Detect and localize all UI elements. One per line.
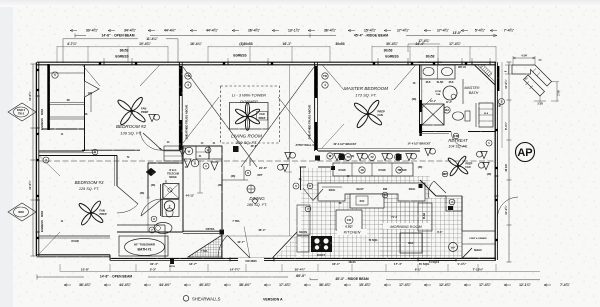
closet shelf top [50, 72, 84, 74]
bath2 cabinet crossed box [163, 184, 179, 199]
bath1 walls [117, 224, 165, 226]
vent symbols living-dining band [285, 152, 291, 159]
pantry door wedge [303, 188, 313, 201]
living room dormer dashed box [221, 86, 280, 143]
corner detail top dimension [513, 57, 535, 59]
master toilet [453, 112, 464, 120]
kitchen entry tile wedge [275, 234, 297, 258]
dining window label [238, 258, 264, 263]
bedroom2 closet partition wall [84, 65, 86, 81]
pantry walls [300, 166, 307, 168]
retreat ceiling fan [457, 165, 468, 175]
right wall black post ticks lower [495, 130, 498, 240]
vault apex drop line [249, 158, 251, 166]
kitchen center island [336, 210, 362, 230]
counter strip left of range [297, 205, 310, 235]
black diamond shear marker [146, 168, 156, 176]
bottom arrow dimension row [64, 284, 71, 286]
circled marker bath1 [149, 227, 155, 233]
tiled floor morning room [380, 198, 462, 258]
vent triangle laundry right [211, 162, 218, 170]
toilet room wall [462, 79, 464, 104]
retreat dividing wall [420, 131, 497, 133]
pantry black posts [315, 156, 320, 161]
AP approval stamp circle [516, 143, 535, 162]
corner detail lower strip [524, 75, 545, 96]
shearwalls legend [183, 296, 189, 302]
bottom ridge beam dimension [310, 279, 540, 281]
master bedroom ceiling fan [367, 113, 383, 127]
top wall windows [104, 61, 132, 63]
vent symbols retreat [425, 148, 431, 155]
dining vertical dim line [289, 65, 291, 236]
morning room circle marker [449, 243, 458, 252]
bottom exterior wall main section [110, 257, 496, 259]
bath2 room outline [162, 200, 179, 217]
hall arch lines [222, 179, 248, 181]
bedroom2 ceiling fan [131, 110, 147, 124]
shear post on living/master wall [315, 66, 318, 98]
master closet shelves crossed box [422, 104, 444, 125]
left exterior wall [35, 62, 37, 256]
kitchen top wall posts [339, 154, 345, 160]
retreat vestibule [446, 196, 462, 211]
marriage wall dash line [37, 160, 496, 162]
bottom wall windows dining [230, 257, 274, 259]
circled marker right wall [486, 140, 492, 146]
circled marker dining right [293, 183, 299, 189]
master bath sink counter [420, 65, 455, 79]
corner detail left dimension [508, 65, 510, 74]
top dimension row 1 with arrows and labels [70, 29, 77, 31]
black post retreat corner [419, 184, 423, 188]
open beam / ridge beam dimension line [75, 35, 497, 37]
bed2 window corner arcs [82, 65, 100, 86]
circled marker retreat wall [453, 133, 459, 139]
entry door wedge [218, 235, 227, 258]
retreat door gap [451, 130, 468, 134]
bottom open beam dimension [37, 276, 310, 278]
right vertical dimension line [508, 62, 510, 262]
utility closet shelves [164, 146, 182, 161]
bedroom3 closet lines [39, 235, 110, 237]
dining left wall [221, 180, 223, 258]
master bath inner wall [475, 103, 477, 127]
bath1 tub oval label [125, 239, 165, 256]
top exterior wall [37, 61, 496, 63]
black shear post laundry wall [233, 146, 239, 152]
tiled floor kitchen [330, 176, 430, 258]
dining ceiling diamond marker [252, 198, 258, 204]
bedroom3 door leaf and swing [117, 186, 138, 204]
right exterior wall [494, 62, 496, 260]
window seat cabinets retreat [462, 231, 495, 258]
kitchen wall to master bedroom [318, 150, 420, 152]
hall wall black post [220, 230, 225, 235]
corner detail bottom dimension [534, 100, 546, 102]
laundry appliance boxes [196, 146, 209, 159]
wall between bedroom2 and living room [178, 62, 180, 151]
master shower circle [443, 86, 457, 100]
window marker diamond bedroom2 [8, 103, 36, 121]
bed2 interior vents [149, 114, 155, 121]
bottom 60 foot dimension [288, 273, 314, 278]
corner detail bar with diagonal arm [512, 65, 552, 86]
left wall black post ticks [36, 70, 39, 238]
closet rod bedroom2 [50, 102, 84, 104]
lower strip inner ticks [526, 82, 530, 86]
left scanner margin strip [0, 0, 13, 307]
circled markers living wall left [185, 73, 191, 79]
corner detail arm inner ticks [533, 69, 537, 73]
kitchen label [337, 229, 367, 235]
master bath door [420, 98, 432, 110]
left wall window bedroom2 [35, 96, 37, 128]
master suite dividing wall [419, 65, 421, 133]
hall bottom wall [183, 230, 222, 232]
extra circled markers scatter [151, 216, 157, 222]
bedroom3 top wall [39, 155, 96, 157]
morning room label [383, 223, 430, 229]
bedroom2 door leaf and swing [143, 133, 162, 150]
laundry alcove walls [183, 145, 222, 147]
circled marker bed3 [43, 157, 49, 163]
living room ceiling fan [247, 115, 260, 125]
window marker diamond bedroom3 [8, 203, 36, 221]
hall dim line [199, 160, 201, 193]
kitchen range black [311, 236, 332, 252]
bath1 tub outline [119, 236, 168, 256]
bedroom3 right wall [116, 156, 118, 187]
top dimension row 3 [63, 38, 178, 40]
kitchen entry diagonal wall [272, 232, 297, 258]
bath1 toilet and sink [154, 223, 172, 234]
fridge box [400, 233, 422, 253]
circled marker master closet [444, 107, 450, 113]
retreat/morning divider diagonal wall [420, 180, 436, 196]
bottom wall windows morning room [418, 257, 456, 259]
bedroom3 ceiling fan [90, 212, 104, 224]
bed3 corner braces [39, 156, 60, 177]
wall between living room and master bedroom [314, 62, 316, 151]
upper cabinets row above kitchen [333, 163, 413, 176]
morning room right window on exterior wall [494, 176, 496, 196]
shear wall post left closet [47, 64, 50, 130]
kitchen counter white island [318, 183, 425, 201]
top wall black post ticks [100, 62, 466, 65]
shear post master wall [419, 100, 421, 112]
corner detail right dimension [556, 82, 558, 101]
living room vault diagonal right [241, 67, 314, 167]
morning room bay corner diagonal [462, 248, 472, 258]
circled markers laundry [205, 147, 211, 153]
vent symbols master bedroom bottom [327, 153, 333, 159]
vent circles row master [345, 154, 352, 161]
circled markers living wall right [322, 73, 328, 79]
bottom exterior wall left section [36, 254, 110, 256]
kitchen right counters [418, 203, 432, 231]
window dim ticks above top wall [104, 58, 490, 63]
laundry vent triangle pair with circles [179, 148, 191, 167]
closet shelf line [42, 128, 84, 130]
top edge fade [0, 0, 600, 7]
vent symbols master band [334, 153, 340, 160]
right wall black post [497, 66, 499, 91]
kitchen island with ice box [350, 194, 384, 208]
left vertical dimension line [32, 64, 34, 256]
retreat door swing [451, 132, 467, 148]
bath2 door swing [141, 199, 162, 216]
bath2 toilet [164, 201, 174, 211]
entry steps hatched triangle [188, 235, 222, 257]
bottom black marker [170, 259, 174, 264]
left wall window bedroom3 [35, 200, 37, 232]
bedroom2 bottom wall with door opening [82, 149, 140, 151]
master bath diagonal corner wall [474, 65, 495, 85]
master bedroom corner braces [322, 65, 344, 90]
right inner vertical dim [501, 62, 503, 148]
circled marker right wall base [499, 99, 505, 105]
closet door pointed wedge [85, 81, 100, 97]
corner window hatch bar [480, 65, 492, 77]
exterior door right wall [497, 197, 518, 218]
living room vault diagonal left [183, 67, 257, 167]
kitchen entry circled marker [305, 206, 311, 212]
circled marker bed2 wall [52, 72, 58, 78]
linen tower shelves [479, 103, 493, 127]
hall and bath2 walls [147, 163, 149, 196]
bath2 hatched wall strip [160, 184, 162, 216]
living room dormer inner box [230, 103, 269, 130]
dining chandelier circle [247, 185, 255, 193]
retreat entry door wedge [428, 181, 446, 198]
tiled floor pantry strip [301, 168, 331, 258]
shear post on bed2/living wall [179, 66, 182, 96]
